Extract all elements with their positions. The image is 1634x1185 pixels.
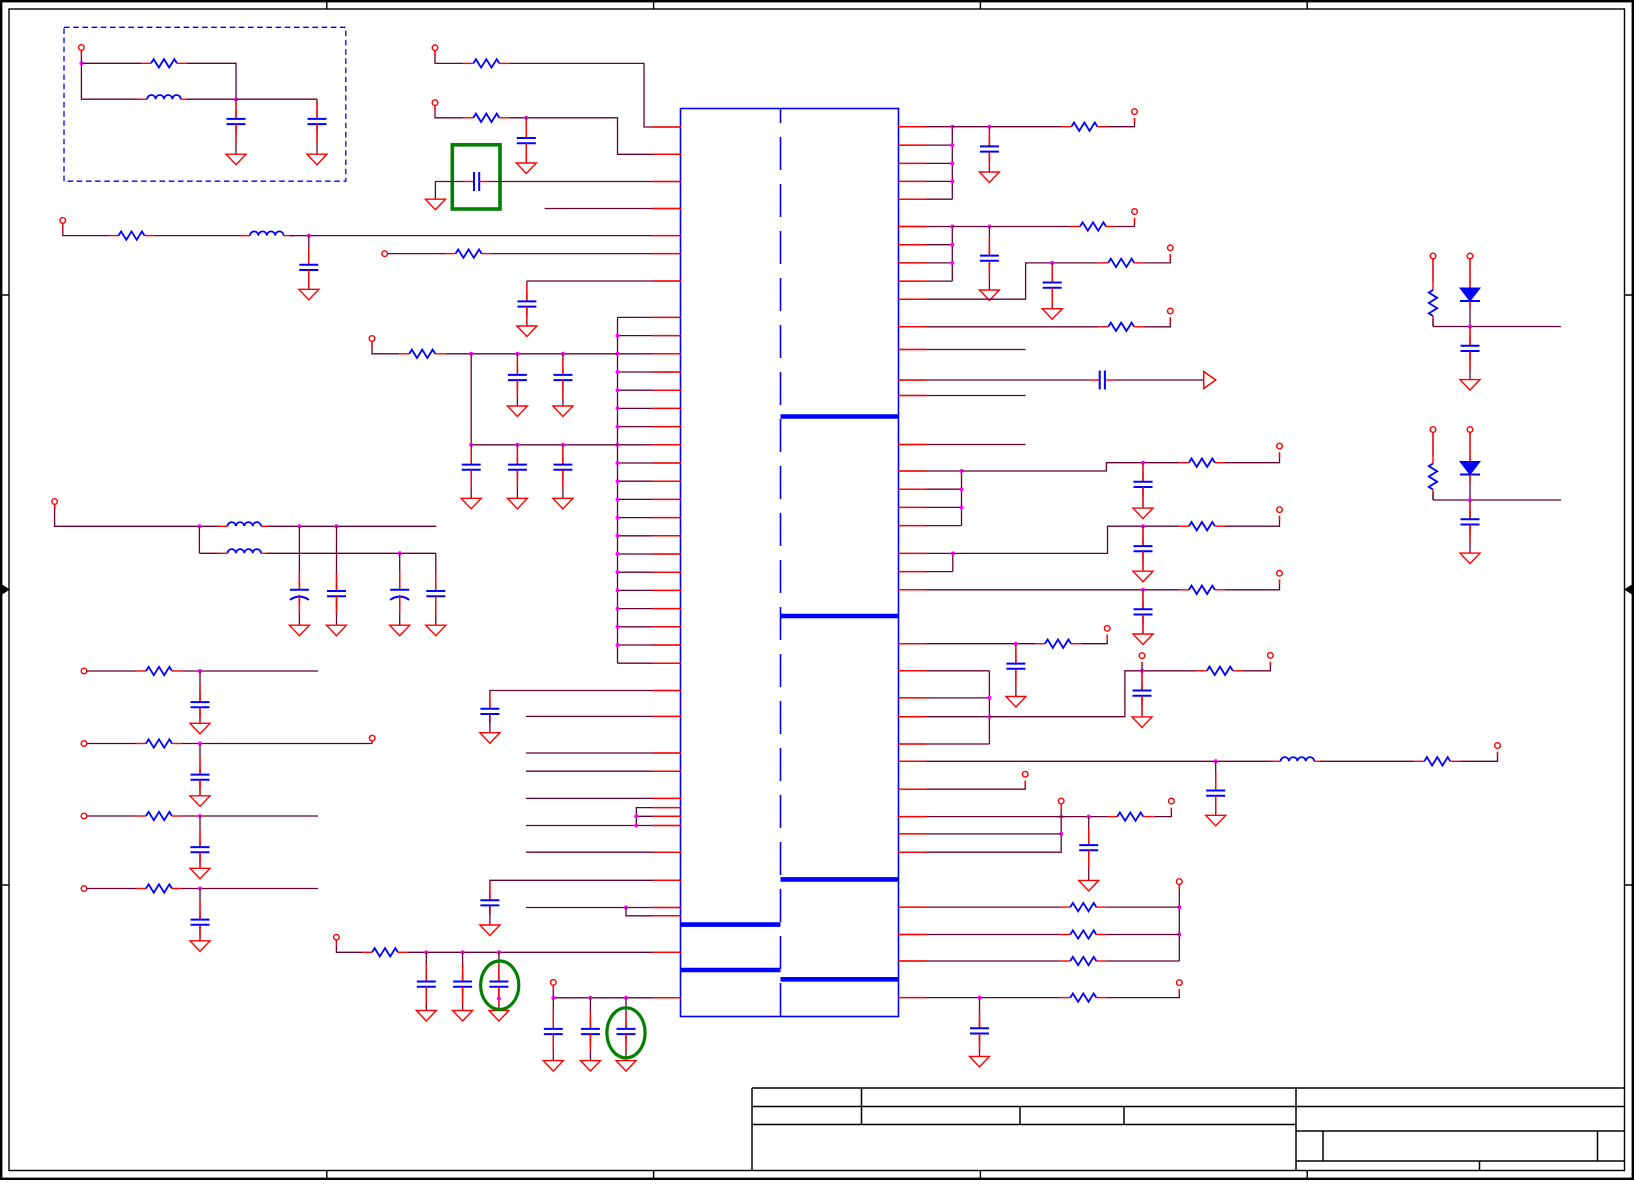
wire <box>589 1034 591 1061</box>
wire <box>199 925 201 941</box>
pin stub <box>898 906 927 908</box>
wire <box>898 816 1108 818</box>
wire <box>898 716 989 718</box>
wire <box>1142 487 1144 508</box>
wire <box>898 525 962 527</box>
wire <box>316 99 318 119</box>
wire <box>979 998 981 1029</box>
ground <box>307 154 327 165</box>
junction <box>297 524 301 528</box>
resistor R16 <box>1179 586 1225 594</box>
junction <box>616 552 620 556</box>
wire <box>267 552 436 554</box>
pin stub <box>653 589 682 591</box>
capacitor C <box>191 911 210 934</box>
wire <box>988 671 990 744</box>
junction <box>497 997 501 1001</box>
junction <box>978 996 982 1000</box>
resistor R K1 <box>1429 280 1437 326</box>
wire <box>399 595 401 625</box>
junction <box>987 225 991 229</box>
capacitor C <box>581 1021 600 1044</box>
wire <box>1051 288 1053 309</box>
wire <box>1469 327 1471 346</box>
capacitor C4 <box>465 172 489 191</box>
inductor L5 <box>1270 757 1324 761</box>
wire <box>199 707 201 723</box>
junction <box>398 551 402 555</box>
ground <box>480 733 500 744</box>
pin stub <box>653 517 682 519</box>
junction <box>234 97 238 101</box>
wire <box>525 118 527 138</box>
pin stub <box>653 280 682 282</box>
ground <box>543 1061 563 1072</box>
wire <box>490 880 681 899</box>
capacitor C11 <box>553 456 572 479</box>
port J14 <box>1277 443 1283 449</box>
resistor R18 <box>1197 667 1243 675</box>
wire <box>1114 379 1203 381</box>
wire <box>199 816 201 847</box>
port K2b <box>1467 427 1473 433</box>
wire <box>199 889 201 920</box>
wire <box>1107 118 1134 127</box>
ground <box>390 625 410 636</box>
IC U1 internal bus line <box>781 977 899 982</box>
ground <box>480 925 500 936</box>
capacitor C K1 <box>1461 337 1480 360</box>
wire <box>489 181 681 183</box>
wire <box>492 253 681 255</box>
resistor R <box>136 884 182 892</box>
pin stub <box>653 444 682 446</box>
wire <box>470 354 472 445</box>
wire <box>898 144 952 146</box>
capacitor C24 <box>1134 473 1153 496</box>
pin stub <box>653 181 682 183</box>
ground <box>553 498 573 509</box>
wire <box>445 353 617 355</box>
ground <box>1460 380 1480 391</box>
ground <box>1133 634 1153 645</box>
wire <box>1225 452 1280 462</box>
wire <box>1106 934 1179 936</box>
junction <box>616 588 620 592</box>
wire <box>1320 760 1414 762</box>
pin stub <box>898 226 927 228</box>
pin stub <box>898 760 927 762</box>
wire <box>182 670 318 672</box>
junction <box>616 497 620 501</box>
port J5 <box>382 251 388 257</box>
pin stub <box>898 816 927 818</box>
pin stub <box>653 851 682 853</box>
wire <box>526 851 681 853</box>
wire <box>1469 259 1471 288</box>
wire <box>618 517 682 519</box>
capacitor C23 <box>1090 371 1114 390</box>
ground <box>517 326 537 337</box>
wire <box>371 741 373 743</box>
port J13 <box>1168 308 1174 314</box>
junction <box>616 388 620 392</box>
wire <box>952 553 954 571</box>
wire <box>516 470 518 499</box>
inductor L2 <box>240 231 294 235</box>
wire <box>498 952 500 981</box>
resistor R24 <box>1060 993 1106 1001</box>
resistor R3 <box>463 114 509 122</box>
ground <box>1079 880 1099 891</box>
border arrow left <box>2 585 10 595</box>
port J15 <box>1277 507 1283 513</box>
IC U1 internal bus line <box>681 968 781 973</box>
pin stub <box>653 426 682 428</box>
wire <box>618 353 682 355</box>
wire <box>516 354 518 375</box>
junction <box>561 443 565 447</box>
wire <box>1215 761 1217 790</box>
wire <box>516 380 518 406</box>
junction <box>987 696 991 700</box>
wire <box>526 752 681 754</box>
ground <box>327 625 347 636</box>
wire <box>898 552 953 554</box>
wire <box>1433 326 1561 328</box>
port J20 <box>1495 743 1501 749</box>
wire <box>490 691 681 708</box>
junction <box>960 469 964 473</box>
resistor R5 <box>446 249 492 257</box>
pin stub <box>898 833 927 835</box>
wire <box>471 444 617 446</box>
wire <box>953 526 1179 553</box>
wire <box>527 280 681 282</box>
junction <box>551 996 555 1000</box>
wire <box>898 781 1025 790</box>
border arrow right <box>1624 585 1632 595</box>
wire <box>1469 433 1471 462</box>
wire <box>898 488 962 490</box>
pin stub <box>898 470 927 472</box>
pin stub <box>653 235 682 237</box>
wire <box>898 395 1026 397</box>
wire <box>898 379 1090 381</box>
pin stub <box>898 180 927 182</box>
wire <box>618 626 682 628</box>
highlight ellipse <box>607 1008 645 1058</box>
wire <box>898 470 962 472</box>
wire <box>618 389 682 391</box>
wire <box>898 506 962 508</box>
pin stub <box>653 571 682 573</box>
capacitor C27 <box>1006 655 1025 678</box>
junction <box>960 505 964 509</box>
wire <box>199 852 201 868</box>
capacitor C22 <box>1043 274 1062 297</box>
pin stub <box>653 644 682 646</box>
junction <box>1014 642 1018 646</box>
port J23 <box>1169 798 1175 804</box>
wire <box>199 744 201 775</box>
capacitor C15 <box>426 583 445 606</box>
pin stub <box>898 349 927 351</box>
port J25 <box>1177 980 1183 986</box>
pin stub <box>653 462 682 464</box>
junction <box>951 551 955 555</box>
junction <box>616 406 620 410</box>
wire <box>989 671 1197 717</box>
capacitor C17 <box>480 892 499 915</box>
wire <box>470 470 472 499</box>
junction <box>616 370 620 374</box>
wire <box>951 127 953 200</box>
wire <box>470 445 472 465</box>
wire <box>618 462 682 464</box>
ground <box>453 1011 473 1022</box>
resistor R11 <box>1070 222 1116 230</box>
capacitor C26 <box>1134 601 1153 624</box>
pin stub <box>898 697 927 699</box>
capacitor C1 <box>227 111 246 134</box>
wire <box>1142 551 1144 571</box>
wire <box>525 143 527 163</box>
wire <box>898 997 1060 999</box>
wire <box>1469 301 1471 327</box>
wire <box>952 126 1061 128</box>
wire <box>435 182 464 200</box>
wire <box>1469 500 1471 519</box>
pin stub <box>898 298 927 300</box>
wire <box>952 226 1070 228</box>
capacitor C29 <box>1206 782 1225 805</box>
junction <box>1214 759 1218 763</box>
wire <box>87 670 136 672</box>
wire <box>898 697 989 699</box>
junction <box>1140 669 1144 673</box>
junction <box>616 570 620 574</box>
port J9 <box>551 980 557 986</box>
wire <box>308 236 310 265</box>
port J12 <box>1168 245 1174 251</box>
border tick <box>1 884 1633 886</box>
capacitor C <box>617 1021 636 1044</box>
wire <box>509 118 681 155</box>
junction <box>634 824 638 828</box>
wire <box>1432 259 1434 280</box>
wire <box>435 553 437 560</box>
resistor R2 <box>463 59 509 67</box>
wire <box>87 815 136 817</box>
wire <box>1142 615 1144 635</box>
wire <box>898 960 1060 962</box>
wire <box>898 226 952 228</box>
wire <box>1243 662 1271 671</box>
wire <box>1432 433 1434 454</box>
pin stub <box>898 280 927 282</box>
highlight ellipse <box>481 961 519 1009</box>
junction <box>335 524 339 528</box>
pin stub <box>898 198 927 200</box>
resistor R <box>1060 930 1106 938</box>
pin stub <box>898 326 927 328</box>
pin stub <box>653 815 682 817</box>
pin stub <box>653 553 682 555</box>
wire <box>1081 635 1107 644</box>
ground <box>489 1011 509 1022</box>
capacitor C <box>453 973 472 996</box>
wire <box>1225 580 1280 590</box>
pin stub <box>898 743 927 745</box>
wire <box>898 180 952 182</box>
junction <box>515 352 519 356</box>
capacitor C3 <box>517 130 536 153</box>
wire <box>961 471 963 526</box>
IC U1 divider <box>780 109 782 1017</box>
wire <box>199 671 201 702</box>
ground <box>190 723 210 734</box>
junction <box>1468 325 1472 329</box>
wire <box>336 940 362 952</box>
border tick <box>326 1 328 1179</box>
pin stub <box>898 444 927 446</box>
ground <box>226 154 246 165</box>
wire <box>187 98 236 100</box>
wire <box>462 987 464 1011</box>
border tick <box>1306 1 1308 1179</box>
capacitor C7 <box>508 367 527 390</box>
pin stub <box>653 371 682 373</box>
wire <box>618 335 682 337</box>
signal arrow <box>1204 372 1216 389</box>
capacitor C25 <box>1134 538 1153 561</box>
junction <box>987 715 991 719</box>
ground <box>516 163 536 174</box>
wire <box>235 124 237 154</box>
junction <box>1141 524 1145 528</box>
resistor R1 <box>141 59 187 67</box>
wire <box>898 326 1098 328</box>
ground <box>580 1061 600 1072</box>
wire <box>636 815 681 817</box>
junction <box>1141 588 1145 592</box>
wire <box>562 380 564 406</box>
wire <box>1142 590 1144 610</box>
junction <box>1059 832 1063 836</box>
port K1a <box>1430 253 1436 259</box>
wire <box>626 908 681 916</box>
pin stub <box>898 997 927 999</box>
port <box>81 813 87 819</box>
wire <box>898 263 1098 299</box>
junction <box>198 742 202 746</box>
inductor L4 <box>217 549 271 553</box>
pin stub <box>898 244 927 246</box>
pin stub <box>653 997 682 999</box>
capacitor C30 <box>1079 837 1098 860</box>
wire <box>1106 906 1179 908</box>
junction <box>987 125 991 129</box>
capacitor C8 <box>553 367 572 390</box>
wire <box>625 998 627 1029</box>
wire <box>298 595 300 625</box>
wire <box>526 307 528 326</box>
wire <box>388 253 446 255</box>
wire <box>625 1034 627 1061</box>
ground <box>507 498 527 509</box>
capacitor C <box>191 694 210 717</box>
junction <box>1087 815 1091 819</box>
wire <box>316 124 318 154</box>
IC U1 internal bus line <box>781 614 899 619</box>
wire <box>962 463 1179 471</box>
wire <box>408 951 681 953</box>
wire <box>898 349 1026 351</box>
junction <box>616 607 620 611</box>
wire <box>898 571 953 573</box>
ground <box>1460 553 1480 564</box>
junction <box>624 996 628 1000</box>
wire <box>898 760 1274 762</box>
junction <box>616 461 620 465</box>
wire <box>1432 492 1434 500</box>
port J1 <box>79 45 85 51</box>
pin stub <box>898 506 927 508</box>
ground <box>1206 815 1226 826</box>
pin stub <box>653 208 682 210</box>
capacitor C21 <box>980 247 999 270</box>
wire <box>1469 351 1471 380</box>
resistor R <box>1060 957 1106 965</box>
wire <box>1088 817 1090 846</box>
pin stub <box>653 353 682 355</box>
wire <box>63 224 109 236</box>
pin stub <box>898 144 927 146</box>
pin stub <box>653 535 682 537</box>
wire <box>489 714 491 733</box>
wire <box>81 51 141 100</box>
wire <box>55 505 222 527</box>
pin stub <box>653 316 682 318</box>
junction <box>198 669 202 673</box>
wire <box>1106 989 1179 998</box>
wire <box>898 126 952 128</box>
resistor R14 <box>1179 459 1225 467</box>
pin stub <box>653 335 682 337</box>
junction <box>616 534 620 538</box>
wire <box>898 670 989 672</box>
pin stub <box>898 643 927 645</box>
wire <box>898 162 952 164</box>
junction <box>616 625 620 629</box>
port J16 <box>1277 571 1283 577</box>
resistor R K2 <box>1429 454 1437 500</box>
junction <box>561 352 565 356</box>
junction <box>950 243 954 247</box>
wire <box>618 426 682 428</box>
port J21 <box>1022 771 1028 777</box>
junction <box>79 61 83 65</box>
port J24 <box>1177 879 1183 885</box>
wire <box>618 589 682 591</box>
wire <box>898 833 1061 835</box>
resistor R <box>136 667 182 675</box>
wire <box>898 643 1035 645</box>
wire <box>1432 319 1434 327</box>
wire <box>1225 516 1280 526</box>
wire net A1 <box>435 51 463 64</box>
